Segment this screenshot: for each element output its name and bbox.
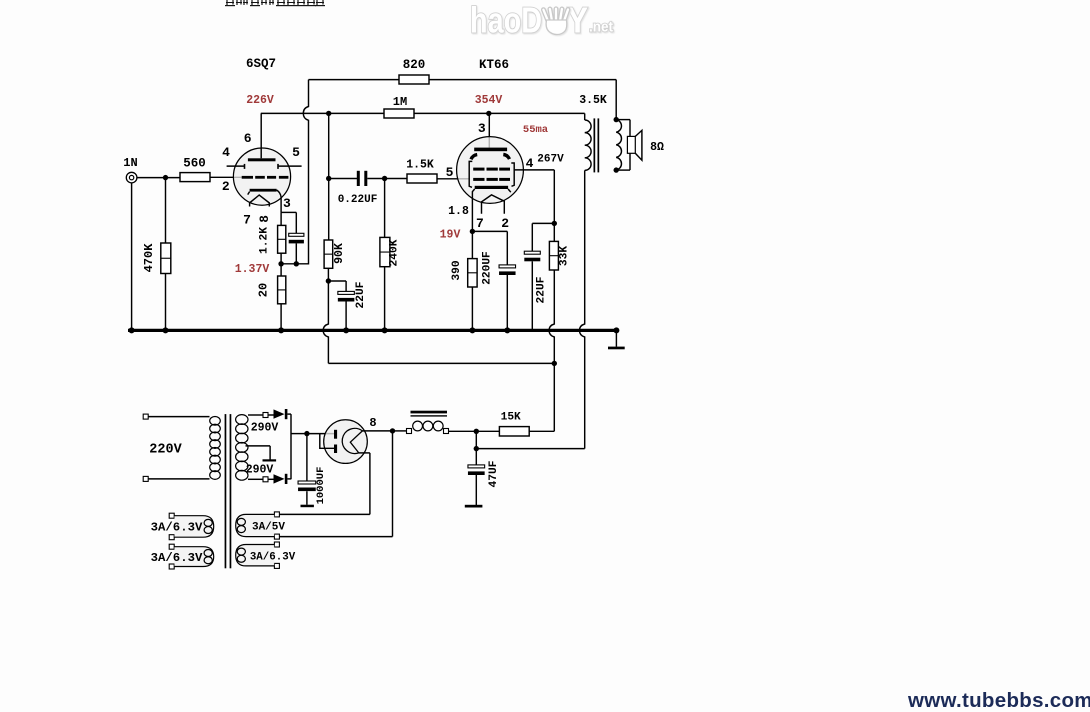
svg-text:KT66: KT66 <box>479 58 509 72</box>
svg-text:1N: 1N <box>123 156 137 170</box>
svg-text:290V: 290V <box>251 422 279 435</box>
svg-text:33K: 33K <box>559 246 571 266</box>
svg-text:.net: .net <box>589 19 613 36</box>
svg-text:0.22UF: 0.22UF <box>338 194 378 206</box>
svg-text:3: 3 <box>283 196 291 211</box>
svg-text:55ma: 55ma <box>523 124 549 136</box>
svg-text:4: 4 <box>526 156 534 171</box>
svg-text:8Ω: 8Ω <box>650 141 664 154</box>
svg-text:354V: 354V <box>475 94 503 107</box>
svg-text:2: 2 <box>501 216 509 231</box>
svg-text:3A/5V: 3A/5V <box>252 522 285 534</box>
svg-text:20: 20 <box>257 283 271 297</box>
svg-text:1M: 1M <box>393 95 407 109</box>
svg-text:6: 6 <box>244 131 252 146</box>
svg-text:8: 8 <box>258 215 272 223</box>
svg-text:www.tubebbs.com: www.tubebbs.com <box>907 689 1090 712</box>
svg-text:7: 7 <box>243 213 251 228</box>
svg-text:1000UF: 1000UF <box>315 467 327 505</box>
svg-text:19V: 19V <box>440 229 461 242</box>
svg-text:267V: 267V <box>537 154 564 166</box>
svg-text:Y: Y <box>567 0 588 41</box>
svg-text:90K: 90K <box>333 243 346 264</box>
svg-text:560: 560 <box>183 157 206 171</box>
svg-text:220V: 220V <box>149 443 182 458</box>
svg-text:1.5K: 1.5K <box>406 159 434 172</box>
svg-text:226V: 226V <box>246 94 274 107</box>
svg-text:22UF: 22UF <box>536 276 548 303</box>
svg-text:3A/6.3V: 3A/6.3V <box>250 551 296 563</box>
svg-text:220UF: 220UF <box>482 251 494 285</box>
svg-text:240K: 240K <box>389 239 401 266</box>
svg-text:1.8: 1.8 <box>448 205 469 218</box>
svg-text:47UF: 47UF <box>488 460 500 487</box>
svg-text:3A/6.3V: 3A/6.3V <box>151 551 203 565</box>
svg-text:2: 2 <box>222 179 230 194</box>
svg-text:1.2K: 1.2K <box>258 227 270 254</box>
svg-text:22UF: 22UF <box>355 281 367 308</box>
svg-text:7: 7 <box>476 216 484 231</box>
svg-text:3A/6.3V: 3A/6.3V <box>151 521 203 535</box>
svg-text:6SQ7: 6SQ7 <box>246 57 276 71</box>
svg-text:290V: 290V <box>246 463 274 476</box>
svg-text:8: 8 <box>369 416 376 430</box>
svg-text:15K: 15K <box>501 412 521 424</box>
svg-text:1.37V: 1.37V <box>235 263 270 276</box>
svg-text:390: 390 <box>451 260 463 280</box>
svg-text:haoD: haoD <box>470 0 542 41</box>
svg-text:820: 820 <box>403 58 426 72</box>
svg-text:3.5K: 3.5K <box>579 94 607 107</box>
svg-text:3: 3 <box>478 121 486 136</box>
svg-text:470K: 470K <box>142 243 156 273</box>
svg-text:4: 4 <box>222 145 230 160</box>
svg-text:5: 5 <box>446 165 454 180</box>
svg-text:5: 5 <box>292 145 300 160</box>
